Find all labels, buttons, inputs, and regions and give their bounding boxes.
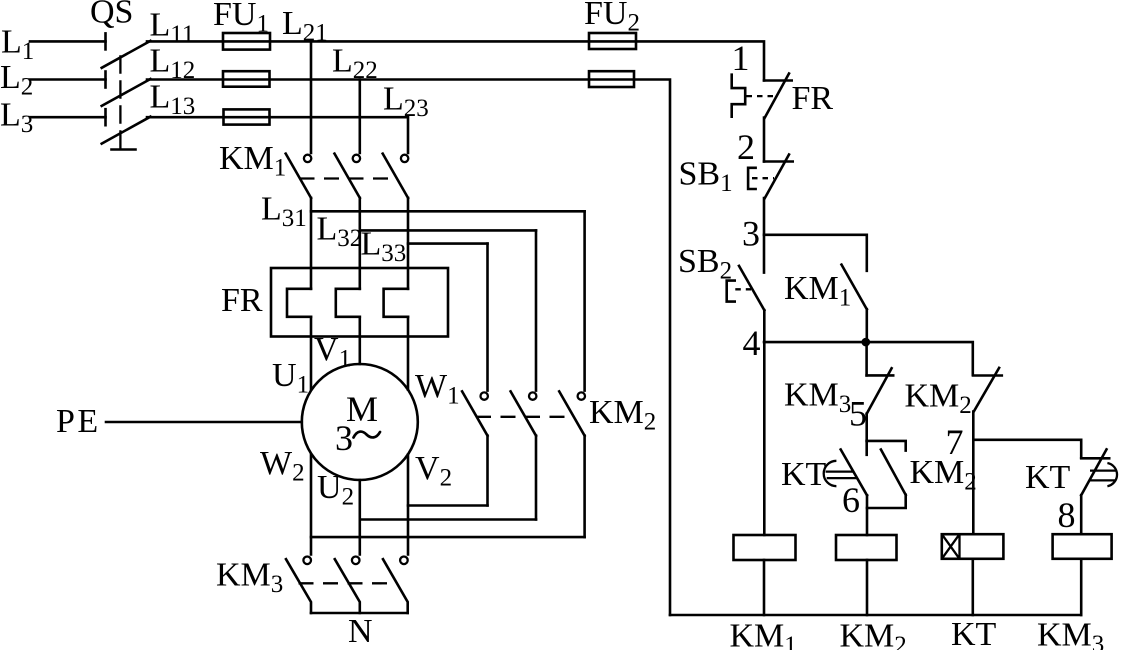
svg-text:4: 4 (743, 323, 761, 363)
svg-text:N: N (348, 613, 373, 650)
svg-text:6: 6 (842, 480, 860, 520)
svg-text:3: 3 (335, 418, 353, 458)
svg-text:QS: QS (90, 0, 133, 31)
svg-text:KT: KT (1025, 459, 1071, 496)
svg-text:2: 2 (737, 127, 755, 167)
svg-text:1: 1 (732, 38, 750, 78)
svg-text:PE: PE (56, 403, 101, 440)
svg-text:KT: KT (951, 616, 997, 650)
svg-text:KT: KT (781, 456, 827, 493)
svg-text:FR: FR (792, 80, 834, 117)
svg-text:FR: FR (221, 282, 263, 319)
svg-text:3: 3 (742, 214, 760, 254)
svg-text:5: 5 (849, 394, 867, 434)
svg-text:8: 8 (1058, 495, 1076, 535)
